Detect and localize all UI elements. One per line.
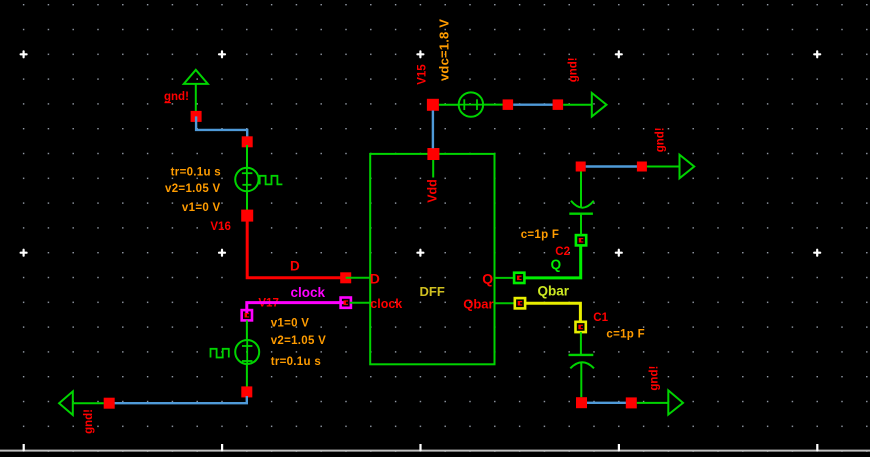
pin clock stub [350, 302, 370, 304]
svg-text:Vdd: Vdd [426, 179, 440, 203]
pin square V16 minus [241, 210, 253, 222]
svg-text:gnd!: gnd! [567, 57, 579, 82]
label gnd1 "gnd!" [164, 91, 189, 103]
voltage source V15 (vdc) [439, 92, 503, 116]
pin Qbar stub [495, 302, 516, 304]
DFF instance I? symbol body [370, 154, 494, 364]
svg-text:v2=1.05 V: v2=1.05 V [271, 335, 326, 347]
junction square C2 plus [576, 162, 586, 172]
pin Vdd stub [432, 154, 434, 178]
voltage source V16 (vpulse) [235, 145, 282, 210]
junction square gnd3 [553, 99, 564, 110]
svg-text:Q: Q [482, 271, 493, 287]
wire V15 to DFF Vdd (blue) [432, 111, 434, 149]
ground symbol gnd4 (right of C2) [647, 155, 694, 179]
svg-text:v1=0 V: v1=0 V [271, 317, 310, 329]
svg-text:tr=0.1u s: tr=0.1u s [271, 356, 321, 368]
wire end square at DFF pin Qbar [515, 298, 525, 308]
svg-text:V15: V15 [416, 64, 428, 85]
wire V15 to gnd3 (blue) [513, 103, 553, 105]
svg-text:gnd!: gnd! [164, 91, 189, 103]
wire net Qbar (yellow) [525, 303, 580, 321]
svg-text:c=1p F: c=1p F [606, 329, 645, 341]
junction square on gnd1 [191, 111, 202, 122]
capacitor C2 [569, 167, 594, 236]
svg-text:DFF: DFF [420, 284, 445, 299]
svg-text:gnd!: gnd! [83, 409, 95, 434]
junction square gnd2 [104, 398, 115, 409]
junction square V16 top [242, 136, 253, 147]
wire end square at DFF pin Q [514, 273, 524, 283]
wire end square at C2 minus pin [576, 235, 586, 245]
svg-text:V16: V16 [210, 221, 230, 233]
capacitor C1 [569, 332, 595, 397]
svg-text:Qbar: Qbar [463, 297, 493, 312]
wire net Q (green) [525, 246, 581, 278]
wire end square at V17 plus pin [242, 310, 252, 320]
pin square V15 minus [503, 99, 513, 110]
junction square gnd5 [626, 397, 637, 408]
svg-text:gnd!: gnd! [648, 366, 660, 391]
wire end square at C1 plus pin [576, 322, 586, 332]
wire gnd1 to V16 plus pin (blue) [196, 116, 247, 141]
svg-text:Qbar: Qbar [538, 284, 570, 299]
svg-text:c=1p F: c=1p F [521, 229, 560, 241]
junction square gnd4 [637, 162, 647, 172]
voltage source V17 (vpulse) [211, 320, 260, 387]
wire net D (red) [247, 216, 346, 278]
pin D stub [346, 277, 371, 279]
svg-text:D: D [290, 259, 300, 274]
ground symbol gnd5 (bottom-right) [637, 390, 683, 414]
ground symbol gnd2 (bottom-left) [59, 391, 104, 415]
wire V17 to gnd2 (blue) [115, 396, 247, 403]
ground symbol gnd1 (top-left) [184, 70, 208, 112]
wire C2 to gnd4 (blue) [586, 165, 637, 167]
svg-text:clock: clock [370, 297, 402, 311]
ground symbol gnd3 (top-right of V15) [563, 93, 606, 117]
svg-text:tr=0.1u s: tr=0.1u s [171, 167, 221, 179]
wire net clock (magenta) [247, 303, 346, 313]
junction square V15 plus [427, 99, 439, 111]
wire end square at DFF pin D [340, 272, 351, 283]
wire end square at DFF pin clock [341, 298, 351, 308]
svg-text:clock: clock [291, 285, 326, 300]
svg-text:vdc=1.8 V: vdc=1.8 V [436, 19, 451, 81]
svg-text:C1: C1 [593, 312, 608, 324]
svg-text:D: D [370, 271, 380, 287]
svg-text:v1=0 V: v1=0 V [182, 202, 221, 214]
wire end square at DFF pin Vdd [427, 148, 439, 160]
junction square C1 minus [576, 397, 587, 408]
svg-text:gnd!: gnd! [655, 127, 667, 152]
svg-text:C2: C2 [555, 246, 570, 258]
pin Q stub [495, 277, 515, 279]
wire C1 to gnd5 (blue) [587, 402, 626, 404]
svg-text:Q: Q [551, 257, 562, 272]
svg-text:v2=1.05 V: v2=1.05 V [165, 183, 220, 195]
pin square V17 minus [241, 386, 252, 397]
